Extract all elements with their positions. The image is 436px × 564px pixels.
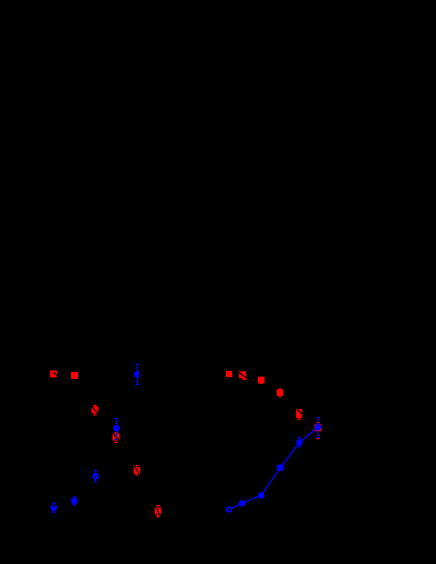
red point R3 error bar	[93, 405, 96, 415]
red point R3	[91, 406, 98, 413]
red point R5	[134, 467, 141, 474]
blue point B5'	[296, 439, 303, 446]
red point R6' error bar	[316, 423, 320, 439]
red point R2'	[239, 371, 246, 378]
red point R5' error bar	[298, 410, 301, 419]
blue point B4	[71, 498, 78, 505]
black slash over R4	[113, 433, 119, 441]
blue point B4 error bar	[73, 497, 77, 505]
black slash over B5	[53, 505, 56, 506]
black slash over R5	[135, 467, 139, 473]
blue point B3	[92, 473, 99, 480]
black slash over B1	[138, 373, 140, 377]
red point R4'	[277, 389, 284, 396]
red point R4	[113, 434, 120, 441]
blue point B4'	[277, 464, 284, 471]
blue point B1	[134, 371, 141, 378]
red point R5'	[296, 409, 302, 418]
blue point B2'	[239, 500, 246, 507]
blue point B3 error bar	[94, 471, 98, 483]
red point R6'	[315, 424, 322, 431]
black slash over R2'	[239, 372, 247, 377]
blue point B6'	[315, 424, 322, 431]
red point R1	[50, 370, 57, 377]
blue point B5' error bar	[298, 438, 302, 447]
red point R4' error bar	[279, 389, 282, 397]
blue point B1 error bar	[135, 364, 139, 384]
red point R1'	[226, 371, 232, 377]
blue point B3'	[258, 492, 265, 499]
red point R2	[71, 372, 78, 379]
red point R3'	[258, 377, 265, 384]
black slash over R1	[53, 372, 57, 376]
red point R4 error bar	[114, 433, 117, 443]
blue point B2 error bar	[115, 419, 119, 440]
red point R5 error bar	[135, 466, 138, 476]
red point R6 error bar with lower-limit arrow	[156, 506, 160, 516]
red point R3' error bar	[260, 377, 263, 384]
blue point B5 error bar	[52, 503, 56, 512]
blue point B6' error bar	[316, 418, 320, 438]
blue connecting line	[229, 427, 318, 509]
black slash over B3	[95, 476, 97, 478]
black slash over R3	[92, 407, 99, 414]
blue point B5	[50, 504, 57, 511]
black slash over R6	[157, 508, 159, 514]
red point R6	[155, 508, 162, 515]
black slash over R5'	[297, 409, 302, 414]
blue point B2	[113, 425, 120, 432]
blue point B1'	[226, 506, 232, 512]
black dot over B1'	[228, 508, 231, 511]
